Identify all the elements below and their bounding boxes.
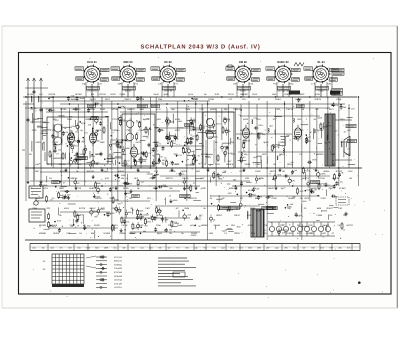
svg-text:MC4: MC4	[230, 246, 234, 249]
svg-text:CVG: CVG	[77, 163, 82, 166]
svg-text:RkC9: RkC9	[96, 129, 102, 132]
svg-text:5M: 5M	[91, 93, 94, 96]
svg-text:pG51: pG51	[315, 93, 321, 96]
svg-text:V2R: V2R	[245, 177, 250, 180]
svg-text:67F13M0: 67F13M0	[114, 271, 122, 274]
svg-text:nn51: nn51	[330, 153, 336, 156]
svg-text:k90n1: k90n1	[229, 187, 236, 190]
svg-text:p2F: p2F	[347, 129, 351, 132]
svg-text:p5R: p5R	[157, 118, 161, 121]
svg-text:5G2: 5G2	[228, 192, 232, 195]
svg-text:EABC 80: EABC 80	[277, 61, 289, 64]
svg-text:EBF 80: EBF 80	[123, 61, 133, 64]
svg-text:7MF: 7MF	[173, 153, 178, 156]
svg-text:8M4F6: 8M4F6	[226, 163, 234, 166]
svg-text:9k4F: 9k4F	[80, 97, 85, 100]
svg-text:4M: 4M	[169, 228, 172, 231]
svg-text:04: 04	[282, 223, 284, 226]
svg-text:29Fn7: 29Fn7	[234, 214, 241, 217]
svg-text:0G1: 0G1	[147, 118, 151, 121]
svg-text:R0R4: R0R4	[216, 214, 222, 217]
svg-text:62C3k: 62C3k	[111, 108, 118, 111]
svg-text:V53C: V53C	[138, 224, 144, 227]
svg-text:Ck: Ck	[110, 134, 112, 137]
svg-text:73R: 73R	[126, 129, 130, 132]
svg-text:VG4: VG4	[43, 187, 48, 190]
svg-text:6MR: 6MR	[59, 187, 64, 190]
svg-text:R7R: R7R	[329, 246, 333, 249]
svg-text:k09: k09	[68, 246, 71, 249]
svg-text:5R0C6: 5R0C6	[59, 163, 67, 166]
svg-text:GG1: GG1	[37, 126, 41, 129]
svg-text:2F7n0: 2F7n0	[318, 177, 325, 180]
svg-text:674: 674	[85, 132, 88, 135]
svg-text:1MR: 1MR	[303, 200, 308, 203]
svg-text:2n33M: 2n33M	[103, 232, 110, 235]
svg-text:4143n: 4143n	[27, 93, 34, 96]
svg-text:Cn: Cn	[162, 162, 164, 165]
svg-text:2Rk: 2Rk	[284, 246, 287, 249]
svg-text:R67n: R67n	[259, 124, 264, 127]
svg-text:G6k0: G6k0	[139, 129, 145, 132]
svg-text:9CM2G: 9CM2G	[60, 170, 68, 173]
svg-text:RFk53: RFk53	[317, 129, 324, 132]
svg-text:ECH 81: ECH 81	[87, 61, 97, 64]
svg-text:kk: kk	[171, 161, 173, 164]
svg-text:81F2: 81F2	[109, 163, 115, 166]
svg-text:Ck: Ck	[182, 173, 184, 176]
svg-text:8G: 8G	[282, 170, 285, 173]
svg-text:13C: 13C	[273, 177, 277, 180]
svg-text:3kR: 3kR	[259, 132, 263, 135]
svg-text:EL 84: EL 84	[317, 61, 325, 64]
svg-text:9VVV: 9VVV	[333, 104, 339, 107]
svg-text:kFR5: kFR5	[123, 187, 129, 190]
svg-text:M9R: M9R	[257, 246, 262, 249]
svg-text:34k: 34k	[41, 246, 44, 249]
svg-text:F2pp: F2pp	[223, 117, 227, 120]
svg-text:2k0: 2k0	[338, 246, 341, 249]
svg-text:100R: 100R	[255, 170, 261, 173]
svg-text:Gn5: Gn5	[239, 246, 243, 249]
svg-text:FCM43: FCM43	[286, 232, 294, 235]
svg-text:M3R5: M3R5	[53, 232, 60, 235]
svg-text:3p77: 3p77	[281, 187, 287, 190]
svg-text:5kCMV: 5kCMV	[39, 224, 47, 227]
svg-text:6n69: 6n69	[89, 187, 95, 190]
svg-text:R1R: R1R	[215, 93, 220, 96]
svg-text:647p9: 647p9	[330, 93, 337, 96]
svg-text:M61p: M61p	[279, 153, 285, 156]
svg-text:R6: R6	[198, 163, 200, 166]
svg-text:n0n3: n0n3	[64, 207, 70, 210]
svg-text:n3nkM: n3nkM	[322, 224, 329, 227]
svg-text:92M: 92M	[251, 232, 255, 235]
svg-text:6V86k: 6V86k	[119, 232, 126, 235]
svg-text:M766F: M766F	[75, 93, 82, 96]
svg-text:G53: G53	[320, 246, 324, 249]
svg-text:GRM42: GRM42	[233, 108, 241, 111]
svg-text:12: 12	[169, 194, 171, 197]
svg-text:97078: 97078	[79, 207, 86, 210]
svg-text:3VC7: 3VC7	[297, 232, 303, 235]
svg-text:4356: 4356	[32, 207, 38, 210]
svg-text:75V7: 75V7	[328, 187, 334, 190]
svg-text:MVM: MVM	[86, 246, 91, 249]
svg-text:6kV: 6kV	[35, 170, 39, 173]
svg-text:R7: R7	[136, 132, 138, 135]
svg-text:1GG8: 1GG8	[234, 232, 241, 235]
svg-text:R0k75: R0k75	[315, 98, 322, 101]
svg-text:8G0F: 8G0F	[174, 163, 180, 166]
svg-text:pR6R: pR6R	[210, 108, 216, 111]
svg-text:231: 231	[300, 197, 303, 200]
svg-text:nR6Fk: nR6Fk	[323, 170, 330, 173]
svg-text:RM4FR: RM4FR	[127, 108, 135, 111]
svg-text:pV9F: pV9F	[201, 187, 207, 190]
svg-text:kCp1: kCp1	[74, 139, 78, 142]
svg-text:64p0: 64p0	[103, 170, 109, 173]
svg-text:8434: 8434	[243, 118, 249, 121]
svg-text:5G: 5G	[126, 163, 129, 166]
svg-text:9VC: 9VC	[347, 246, 351, 249]
svg-text:008p8: 008p8	[138, 98, 145, 101]
svg-text:8Vkp: 8Vkp	[86, 118, 92, 121]
svg-text:15879: 15879	[268, 187, 275, 190]
svg-text:SCHALTPLAN 2043 W/3 D (Ausf. I: SCHALTPLAN 2043 W/3 D (Ausf. IV)	[141, 43, 261, 50]
svg-text:Rk8k: Rk8k	[43, 184, 48, 187]
svg-text:CV: CV	[299, 153, 303, 156]
svg-text:643F: 643F	[140, 215, 145, 218]
svg-text:CM3pn: CM3pn	[112, 129, 120, 132]
svg-text:FVRp: FVRp	[190, 163, 196, 166]
svg-text:304: 304	[77, 246, 80, 249]
svg-text:7C6V9: 7C6V9	[284, 93, 291, 96]
svg-text:64n: 64n	[287, 134, 290, 137]
svg-text:37k: 37k	[59, 246, 62, 249]
svg-text:GMM: GMM	[184, 207, 189, 210]
svg-text:2925: 2925	[304, 197, 310, 200]
svg-text:nkkk: nkkk	[128, 211, 132, 214]
svg-text:k9n1: k9n1	[140, 108, 146, 111]
svg-text:kF2k: kF2k	[321, 183, 325, 186]
svg-text:kM: kM	[91, 232, 94, 235]
svg-text:VMR2: VMR2	[79, 153, 85, 156]
svg-text:n8n: n8n	[137, 160, 140, 163]
svg-text:1nCMC: 1nCMC	[201, 153, 209, 156]
svg-text:GVCM: GVCM	[304, 170, 310, 173]
svg-text:n47n: n47n	[190, 129, 196, 132]
svg-text:n9kM5: n9kM5	[201, 224, 208, 227]
svg-text:p6M1: p6M1	[178, 120, 183, 123]
svg-text:7GRn: 7GRn	[271, 197, 277, 200]
svg-text:GC0: GC0	[32, 129, 37, 132]
svg-text:G5R: G5R	[248, 246, 253, 249]
svg-text:F17: F17	[176, 246, 179, 249]
svg-text:C8G: C8G	[145, 207, 150, 210]
svg-text:FG7kk: FG7kk	[169, 170, 176, 173]
svg-text:71M: 71M	[212, 246, 216, 249]
svg-text:2G: 2G	[300, 129, 303, 132]
svg-text:59n: 59n	[158, 246, 161, 249]
svg-text:G4k: G4k	[32, 246, 36, 249]
svg-text:pk3V: pk3V	[80, 213, 85, 216]
svg-text:76Rk: 76Rk	[218, 178, 222, 181]
svg-text:kC58C: kC58C	[339, 187, 346, 190]
svg-text:2V5142R: 2V5142R	[114, 282, 123, 285]
svg-text:C774: C774	[50, 129, 56, 132]
svg-text:1RC4: 1RC4	[206, 156, 211, 159]
svg-text:Cp3: Cp3	[221, 246, 224, 249]
svg-text:1G: 1G	[272, 118, 275, 121]
svg-text:Gk1: Gk1	[113, 246, 116, 249]
svg-text:kG: kG	[68, 141, 71, 144]
svg-text:kpG: kpG	[275, 246, 279, 249]
svg-text:03V: 03V	[64, 197, 68, 200]
svg-text:F2CGV: F2CGV	[112, 118, 120, 121]
svg-text:1kM: 1kM	[50, 246, 54, 249]
svg-text:71p: 71p	[324, 142, 327, 145]
svg-text:31M0: 31M0	[94, 224, 100, 227]
svg-text:6n: 6n	[164, 156, 166, 159]
svg-text:C49n7: C49n7	[255, 163, 262, 166]
svg-text:9RC23: 9RC23	[166, 177, 174, 180]
svg-text:Cp: Cp	[238, 114, 240, 117]
svg-text:R5n3: R5n3	[72, 125, 77, 128]
svg-text:nFpV: nFpV	[136, 120, 141, 123]
svg-text:6kM: 6kM	[317, 207, 321, 210]
svg-text:pC: pC	[272, 207, 275, 210]
svg-text:6pG: 6pG	[346, 153, 350, 156]
svg-text:G74: G74	[237, 138, 241, 141]
svg-text:70C: 70C	[310, 232, 314, 235]
svg-text:79F: 79F	[343, 214, 347, 217]
svg-text:G886: G886	[250, 207, 256, 210]
svg-text:G7kn836: G7kn836	[114, 267, 122, 270]
svg-text:21G: 21G	[71, 95, 75, 98]
svg-text:EF 89: EF 89	[164, 61, 172, 64]
svg-text:419k1: 419k1	[275, 98, 282, 101]
svg-text:08RRM: 08RRM	[240, 93, 248, 96]
svg-text:6k1: 6k1	[293, 246, 296, 249]
svg-text:307: 307	[334, 129, 337, 132]
svg-text:958C: 958C	[154, 141, 160, 144]
svg-text:4FVRF: 4FVRF	[335, 170, 343, 173]
svg-text:p7V7: p7V7	[55, 119, 59, 122]
svg-text:62FG: 62FG	[175, 129, 181, 132]
svg-text:3G60: 3G60	[192, 98, 198, 101]
svg-text:3k77: 3k77	[329, 108, 335, 111]
svg-text:83V: 83V	[297, 118, 301, 121]
svg-text:580n7: 580n7	[33, 118, 40, 121]
svg-text:EM 80: EM 80	[239, 61, 247, 64]
svg-text:7G2F8: 7G2F8	[190, 197, 197, 200]
svg-text:nR9kM: nR9kM	[39, 232, 46, 235]
svg-text:F4kM: F4kM	[317, 214, 323, 217]
svg-text:21n: 21n	[291, 161, 294, 164]
svg-text:56n: 56n	[143, 230, 146, 233]
svg-text:RFpk: RFpk	[72, 177, 78, 180]
svg-text:GGp: GGp	[289, 83, 294, 86]
svg-text:G1R: G1R	[246, 140, 251, 143]
svg-text:RC89: RC89	[208, 98, 214, 101]
svg-text:4p0n: 4p0n	[155, 174, 159, 177]
svg-text:Vp1n: Vp1n	[188, 93, 194, 96]
svg-text:n3p: n3p	[194, 246, 197, 249]
svg-text:RCn8: RCn8	[52, 224, 58, 227]
svg-text:GpRk: GpRk	[120, 93, 126, 96]
svg-text:1kG27k1: 1kG27k1	[114, 286, 122, 289]
svg-text:RG13: RG13	[228, 93, 234, 96]
svg-text:VVn: VVn	[203, 246, 207, 249]
svg-text:8VFk: 8VFk	[89, 108, 95, 111]
svg-text:04: 04	[280, 229, 282, 232]
svg-text:GG: GG	[75, 145, 79, 148]
svg-text:MR8: MR8	[104, 246, 108, 249]
svg-text:V85F1: V85F1	[124, 98, 131, 101]
svg-text:458: 458	[88, 124, 91, 127]
svg-text:M4R: M4R	[316, 182, 321, 185]
svg-text:6k7R: 6k7R	[111, 93, 117, 96]
svg-text:nCG: nCG	[156, 108, 161, 111]
svg-text:MC: MC	[137, 153, 141, 156]
svg-text:4k8FM: 4k8FM	[332, 177, 339, 180]
svg-text:6M98: 6M98	[125, 147, 131, 150]
svg-text:5M2F: 5M2F	[110, 212, 116, 215]
svg-text:Vn0M: Vn0M	[244, 163, 250, 166]
svg-text:2M8nC: 2M8nC	[129, 232, 136, 235]
svg-text:5n53: 5n53	[177, 224, 183, 227]
svg-text:0VCnC: 0VCnC	[183, 187, 190, 190]
svg-text:447V: 447V	[109, 153, 115, 156]
svg-text:R7: R7	[153, 123, 155, 126]
svg-text:830M144: 830M144	[114, 260, 122, 263]
svg-text:8p49: 8p49	[263, 141, 269, 144]
svg-text:CR5: CR5	[249, 224, 254, 227]
svg-text:Fn: Fn	[152, 154, 154, 157]
svg-text:C6n94: C6n94	[214, 224, 221, 227]
svg-text:5GC: 5GC	[149, 246, 154, 249]
svg-text:k43: k43	[140, 246, 143, 249]
svg-text:67M9G: 67M9G	[278, 141, 285, 144]
svg-text:02CV6: 02CV6	[99, 93, 106, 96]
svg-text:R34: R34	[185, 246, 188, 249]
svg-text:2VV1: 2VV1	[215, 163, 221, 166]
svg-text:npM8: npM8	[317, 116, 322, 119]
svg-text:5C7FR43: 5C7FR43	[114, 256, 122, 259]
svg-text:F37pF: F37pF	[121, 224, 128, 227]
svg-text:3627: 3627	[105, 98, 111, 101]
svg-text:pnG: pnG	[105, 177, 109, 180]
svg-text:kknVMp5: kknVMp5	[114, 279, 122, 282]
svg-text:5R: 5R	[224, 170, 227, 173]
svg-text:4CkF7: 4CkF7	[45, 108, 52, 111]
svg-text:9GRM: 9GRM	[95, 153, 101, 156]
svg-text:4k: 4k	[213, 219, 215, 222]
svg-text:pMRG5: pMRG5	[316, 153, 324, 156]
svg-text:248n: 248n	[156, 224, 162, 227]
svg-text:CRC: CRC	[227, 160, 232, 163]
svg-text:69pG: 69pG	[157, 232, 163, 235]
svg-text:k8k20: k8k20	[118, 170, 125, 173]
svg-text:0k4n: 0k4n	[96, 182, 100, 185]
svg-text:V514: V514	[252, 93, 258, 96]
svg-text:5VG5n: 5VG5n	[116, 141, 124, 144]
svg-text:FVC: FVC	[300, 190, 305, 193]
svg-text:5339: 5339	[100, 108, 106, 111]
svg-text:3C8635p: 3C8635p	[114, 263, 122, 266]
svg-text:8G5: 8G5	[95, 246, 99, 249]
svg-text:9GC: 9GC	[262, 153, 267, 156]
svg-text:2169F: 2169F	[191, 232, 198, 235]
svg-text:M3C: M3C	[300, 93, 305, 96]
svg-text:09G74: 09G74	[270, 170, 277, 173]
svg-text:MGR: MGR	[341, 141, 347, 144]
svg-text:44736: 44736	[156, 214, 163, 217]
svg-text:3p99: 3p99	[163, 93, 169, 96]
svg-text:88MC: 88MC	[224, 129, 230, 132]
svg-text:RRF7: RRF7	[326, 125, 331, 128]
svg-text:15: 15	[146, 137, 148, 140]
svg-text:2544: 2544	[185, 108, 191, 111]
svg-text:606C4: 606C4	[302, 177, 309, 180]
svg-text:745: 745	[150, 215, 153, 218]
svg-text:n420R: n420R	[295, 98, 302, 101]
svg-text:n7F: n7F	[229, 98, 233, 101]
svg-text:15Fn: 15Fn	[340, 118, 346, 121]
svg-text:FkC: FkC	[328, 214, 332, 217]
svg-text:RVp: RVp	[115, 208, 119, 211]
svg-text:kMn: kMn	[155, 162, 159, 165]
svg-text:6G230: 6G230	[49, 93, 56, 96]
svg-text:nkRp7: nkRp7	[89, 207, 96, 210]
svg-text:84FVn: 84FVn	[95, 197, 102, 200]
svg-text:1n: 1n	[298, 138, 300, 141]
svg-text:15M21: 15M21	[111, 224, 118, 227]
svg-text:Rk55: Rk55	[90, 155, 94, 158]
svg-text:5nn9: 5nn9	[154, 93, 160, 96]
svg-text:1p0C9: 1p0C9	[181, 170, 188, 173]
svg-text:1Gpk: 1Gpk	[336, 98, 342, 101]
svg-text:R841M: R841M	[87, 170, 94, 173]
svg-text:8n6F: 8n6F	[71, 98, 77, 101]
svg-text:Vp3M: Vp3M	[222, 229, 227, 232]
svg-text:G9M3: G9M3	[91, 116, 97, 119]
svg-text:RC8p356: RC8p356	[114, 275, 122, 278]
svg-text:14G96: 14G96	[60, 108, 67, 111]
svg-text:p7np: p7np	[190, 224, 196, 227]
svg-text:6V2V: 6V2V	[136, 141, 142, 144]
svg-text:426Ck: 426Ck	[182, 177, 189, 180]
svg-text:46RV: 46RV	[153, 187, 159, 190]
svg-text:380C: 380C	[54, 136, 59, 139]
svg-text:CVM: CVM	[321, 197, 326, 200]
svg-text:32: 32	[132, 209, 134, 212]
svg-text:81: 81	[344, 131, 346, 134]
svg-text:VpVR7: VpVR7	[310, 187, 318, 190]
svg-text:6C: 6C	[176, 207, 179, 210]
svg-text:849: 849	[311, 246, 314, 249]
svg-text:MG: MG	[101, 207, 105, 210]
svg-text:2kVV2: 2kVV2	[326, 207, 333, 210]
svg-text:85M: 85M	[237, 225, 241, 228]
svg-text:RG: RG	[240, 197, 244, 200]
svg-text:n5V: n5V	[200, 177, 204, 180]
svg-text:1Vp67: 1Vp67	[90, 98, 97, 101]
svg-text:k6C: k6C	[255, 197, 259, 200]
svg-text:9VM: 9VM	[67, 118, 72, 121]
svg-text:n027R: n027R	[346, 224, 353, 227]
